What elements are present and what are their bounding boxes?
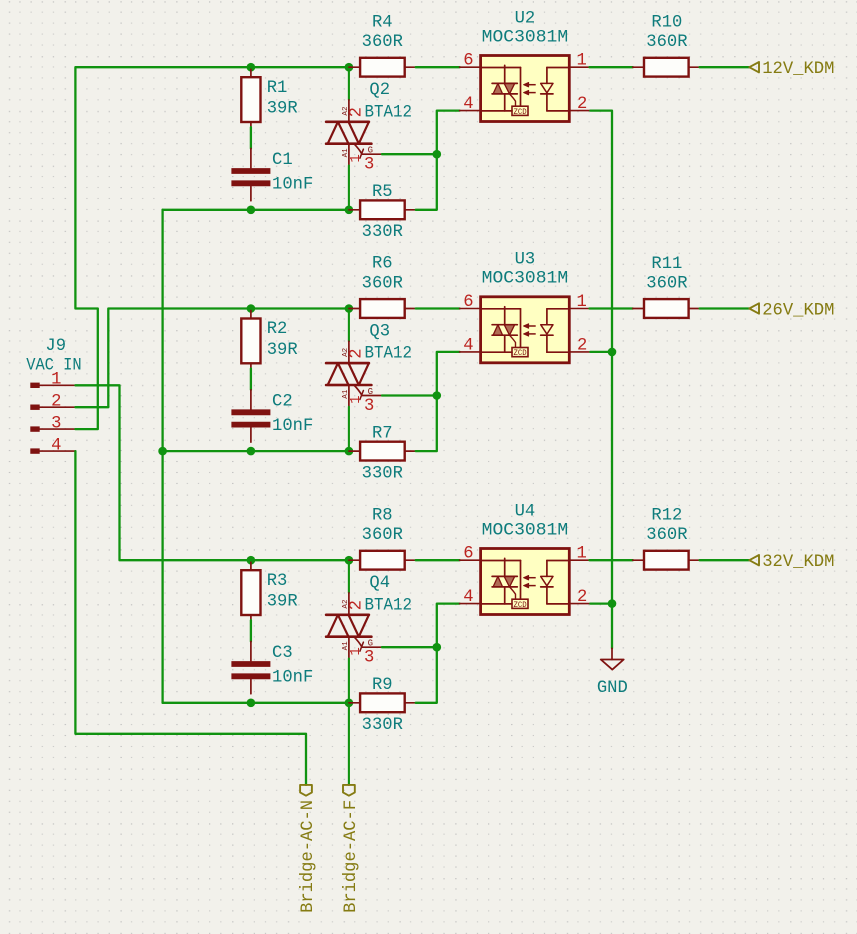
svg-text:BTA12: BTA12: [365, 596, 413, 615]
resistor R10 output: [633, 58, 700, 77]
wire R8 to U4 pin 6: [416, 559, 460, 561]
wire gate vertical to U3 pin 4: [437, 352, 460, 396]
wire channel 3 bottom rail: [163, 702, 349, 704]
wire J9 pin 2 to channel 2: [75, 309, 251, 408]
junction rail bus channel 2: [158, 447, 167, 456]
svg-text:Bridge-AC-N: Bridge-AC-N: [299, 800, 318, 913]
svg-text:R1: R1: [267, 79, 288, 98]
resistor R11 output: [633, 299, 700, 318]
svg-text:MOC3081M: MOC3081M: [482, 28, 569, 47]
svg-text:R6: R6: [372, 255, 393, 274]
svg-text:26V_KDM: 26V_KDM: [762, 301, 834, 320]
svg-text:360R: 360R: [362, 33, 403, 52]
svg-text:J9: J9: [45, 337, 66, 356]
resistor R4 series top: [349, 58, 416, 77]
junction top of R2: [247, 304, 256, 313]
wire J9 pin 3 to channel 1 (path up): [75, 67, 251, 429]
svg-text:C1: C1: [272, 151, 293, 170]
triac Q4: [326, 562, 382, 703]
wire U3 pin 2 to GND bus: [590, 351, 612, 353]
global label 26V_KDM: [749, 301, 834, 320]
svg-text:1: 1: [51, 371, 61, 390]
resistor R7 bottom: [349, 442, 416, 461]
svg-text:MOC3081M: MOC3081M: [482, 521, 569, 540]
junction Q4 A1 / R9 left: [345, 699, 354, 708]
svg-text:R10: R10: [651, 14, 682, 33]
wire R1 to C1: [250, 127, 252, 148]
wire U2 pin 2 to GND bus: [590, 111, 612, 352]
wire rail bus down left: [161, 210, 163, 703]
junction GND bus channel 3: [608, 599, 617, 608]
svg-text:C3: C3: [272, 644, 293, 663]
svg-text:39R: 39R: [267, 100, 298, 119]
wire R12 to output label: [700, 559, 750, 561]
junction top of R3: [247, 556, 256, 565]
resistor R5 bottom: [349, 200, 416, 219]
U2 pin 1: [569, 52, 589, 71]
U4 pin 2: [569, 588, 590, 607]
wire Q2 gate to junction: [382, 153, 437, 155]
svg-text:360R: 360R: [646, 275, 687, 294]
svg-text:6: 6: [463, 293, 473, 312]
svg-text:R2: R2: [267, 320, 288, 339]
resistor R3: [241, 562, 260, 623]
optocoupler U4: [481, 549, 570, 615]
wire R9 right to gate vertical: [416, 647, 437, 703]
svg-text:12V_KDM: 12V_KDM: [762, 60, 834, 79]
wire R2 to C2: [250, 369, 252, 390]
svg-text:Q2: Q2: [369, 81, 390, 100]
svg-text:2: 2: [577, 336, 587, 355]
svg-text:C2: C2: [272, 393, 293, 412]
junction gate node: [433, 150, 442, 159]
connector J9 pin 4: [31, 437, 76, 456]
svg-text:BTA12: BTA12: [365, 345, 413, 364]
wire Q3 gate to junction: [382, 394, 437, 396]
triac Q2: [326, 69, 382, 210]
junction GND bus channel 2: [608, 348, 617, 357]
wire R5 right to gate vertical: [416, 154, 437, 210]
svg-text:6: 6: [463, 545, 473, 564]
global label 12V_KDM: [749, 60, 834, 79]
junction top of R1: [247, 63, 256, 72]
U4 pin 4: [460, 588, 481, 607]
svg-text:U4: U4: [515, 502, 536, 521]
power symbol GND: [601, 648, 624, 669]
U2 pin 2: [569, 95, 590, 114]
U3 pin 1: [569, 293, 589, 312]
junction gate node: [433, 643, 442, 652]
svg-text:4: 4: [463, 336, 473, 355]
U4 pin 1: [569, 545, 589, 564]
svg-text:10nF: 10nF: [272, 669, 313, 688]
svg-text:4: 4: [463, 588, 473, 607]
svg-text:R11: R11: [651, 255, 682, 274]
svg-text:360R: 360R: [646, 526, 687, 545]
wire gate vertical to U2 pin 4: [437, 111, 460, 155]
U3 pin 2: [569, 336, 590, 355]
svg-text:G: G: [368, 146, 373, 156]
svg-text:330R: 330R: [362, 223, 403, 242]
junction C2 bottom: [247, 447, 256, 456]
svg-text:MOC3081M: MOC3081M: [482, 270, 569, 289]
wire channel 2 top net segment: [251, 307, 349, 309]
svg-text:R7: R7: [372, 424, 393, 443]
svg-text:1: 1: [577, 52, 587, 71]
svg-text:4: 4: [463, 95, 473, 114]
wire R10 to output label: [700, 66, 750, 68]
svg-text:3: 3: [51, 415, 61, 434]
junction R8 left / Q4 branch: [345, 556, 354, 565]
wire R3 to C3: [250, 620, 252, 641]
svg-text:G: G: [368, 639, 373, 649]
svg-text:2: 2: [577, 95, 587, 114]
svg-text:R4: R4: [372, 13, 393, 32]
svg-text:4: 4: [51, 437, 61, 456]
U3 pin 6: [460, 293, 481, 312]
svg-text:360R: 360R: [646, 33, 687, 52]
wire GND bus lower: [611, 352, 613, 648]
triac Q3: [326, 311, 382, 452]
svg-text:2: 2: [577, 588, 587, 607]
svg-text:ZCD: ZCD: [514, 349, 527, 358]
svg-text:U2: U2: [515, 9, 536, 28]
optocoupler U2: [481, 56, 570, 122]
wire channel 1 top net segment: [251, 66, 349, 68]
svg-text:330R: 330R: [362, 716, 403, 735]
junction C1 bottom: [247, 206, 256, 215]
svg-text:1: 1: [348, 154, 364, 162]
wire channel 3 top net segment: [251, 559, 349, 561]
svg-text:3: 3: [364, 156, 374, 175]
svg-text:2: 2: [347, 600, 366, 610]
connector J9 pin 3: [31, 415, 76, 434]
svg-text:1: 1: [577, 545, 587, 564]
wire U4 pin 1 to R12: [590, 559, 633, 561]
svg-text:ZCD: ZCD: [514, 601, 527, 610]
svg-text:GND: GND: [597, 679, 628, 698]
wire U3 pin 1 to R11: [590, 307, 633, 309]
capacitor C2: [231, 390, 270, 442]
wire channel 1 bottom rail: [163, 209, 349, 211]
svg-text:10nF: 10nF: [272, 176, 313, 195]
svg-text:360R: 360R: [362, 274, 403, 293]
svg-text:1: 1: [348, 647, 364, 655]
optocoupler U3: [481, 297, 570, 363]
wire Q4 gate to junction: [382, 646, 437, 648]
wire R7 right to gate vertical: [416, 396, 437, 452]
wire J9 pin 1 to channel 3: [75, 385, 251, 560]
resistor R2: [241, 311, 260, 372]
global label Bridge-AC-N: [299, 785, 318, 913]
resistor R8 series top: [349, 551, 416, 570]
junction Q3 A1 / R7 left: [345, 447, 354, 456]
global label 32V_KDM: [749, 553, 834, 572]
svg-text:3: 3: [364, 397, 374, 416]
junction C3 bottom: [247, 699, 256, 708]
junction R4 left / Q2 branch: [345, 63, 354, 72]
wire U4 pin 2 to GND bus: [590, 602, 612, 604]
junction Q2 A1 / R5 left: [345, 206, 354, 215]
resistor R12 output: [633, 551, 700, 570]
svg-text:2: 2: [51, 393, 61, 412]
svg-text:Q4: Q4: [369, 574, 390, 593]
svg-text:2: 2: [347, 107, 366, 117]
junction gate node: [433, 391, 442, 400]
svg-text:R9: R9: [372, 676, 393, 695]
global label Bridge-AC-F: [342, 703, 361, 913]
svg-text:R5: R5: [372, 183, 393, 202]
U2 pin 6: [460, 52, 481, 71]
svg-text:360R: 360R: [362, 526, 403, 545]
svg-text:U3: U3: [515, 251, 536, 270]
wire J9 pin 4 to Bridge-AC-N: [75, 451, 306, 785]
svg-text:G: G: [368, 387, 373, 397]
svg-text:3: 3: [364, 649, 374, 668]
junction R6 left / Q3 branch: [345, 304, 354, 313]
svg-text:Bridge-AC-F: Bridge-AC-F: [342, 800, 361, 913]
capacitor C3: [231, 642, 270, 694]
wire gate vertical to U4 pin 4: [437, 604, 460, 648]
wire U2 pin 1 to R10: [590, 66, 633, 68]
svg-text:R8: R8: [372, 506, 393, 525]
wire channel 2 bottom rail: [163, 450, 349, 452]
svg-text:1: 1: [348, 395, 364, 403]
svg-text:1: 1: [577, 293, 587, 312]
svg-text:39R: 39R: [267, 341, 298, 360]
svg-text:32V_KDM: 32V_KDM: [762, 553, 834, 572]
svg-text:10nF: 10nF: [272, 417, 313, 436]
svg-text:39R: 39R: [267, 593, 298, 612]
svg-text:Q3: Q3: [369, 322, 390, 341]
wire R6 to U3 pin 6: [416, 307, 460, 309]
resistor R1: [241, 69, 260, 130]
svg-text:6: 6: [463, 52, 473, 71]
connector J9 pin 2: [31, 393, 76, 412]
resistor R6 series top: [349, 299, 416, 318]
connector J9 pin 1: [31, 371, 76, 390]
svg-text:ZCD: ZCD: [514, 108, 527, 117]
U3 pin 4: [460, 336, 481, 355]
wire R4 to U2 pin 6: [416, 66, 460, 68]
wire R11 to output label: [700, 307, 750, 309]
resistor R9 bottom: [349, 693, 416, 712]
svg-text:330R: 330R: [362, 465, 403, 484]
capacitor C1: [231, 149, 270, 201]
U4 pin 6: [460, 545, 481, 564]
svg-text:R3: R3: [267, 572, 288, 591]
svg-text:2: 2: [347, 348, 366, 358]
svg-text:R12: R12: [651, 507, 682, 526]
svg-text:BTA12: BTA12: [365, 103, 413, 122]
U2 pin 4: [460, 95, 481, 114]
